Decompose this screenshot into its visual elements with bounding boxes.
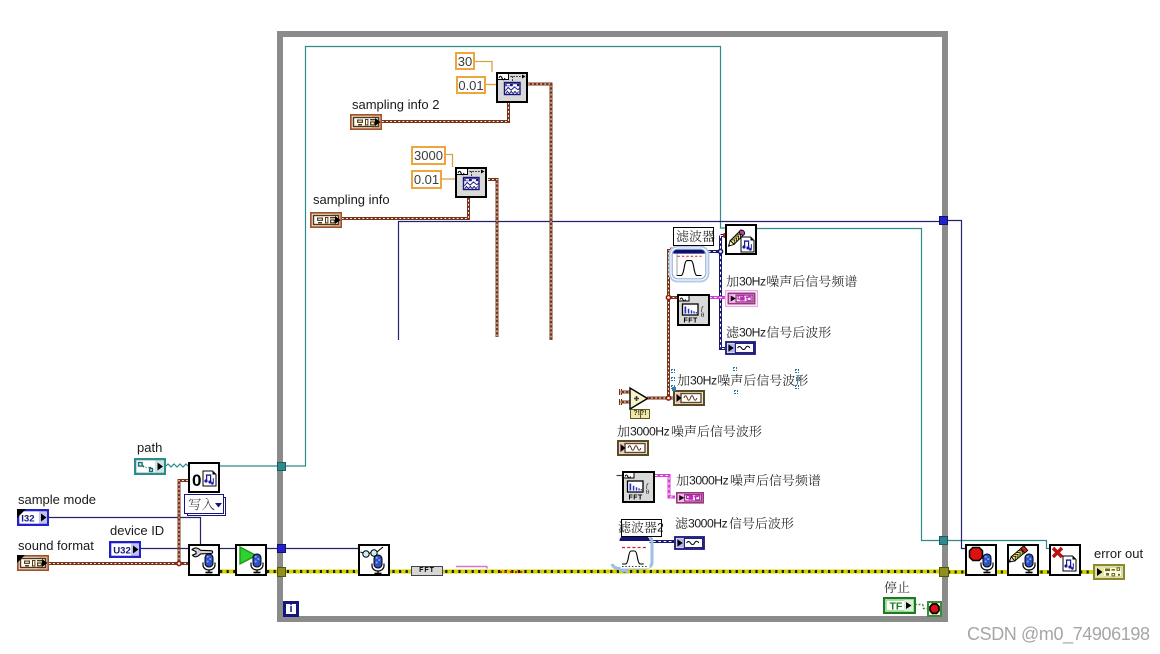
wire: broken input stub at FFT2	[617, 475, 623, 477]
wire: teal refnum from Write Sound File VI to right tunnel and Sound File Close	[757, 229, 1049, 549]
加3000Hz噪声后信号波形 indicator (waveform graph terminal)	[617, 440, 649, 456]
stop boolean TF terminal	[883, 597, 916, 614]
svg-text:30Hz: 30Hz	[739, 326, 766, 339]
label 滤3000Hz信号后波形	[675, 517, 794, 533]
label device ID	[110, 523, 164, 538]
device ID U32 terminal	[109, 541, 141, 558]
wire: configure to start VI (task id)	[220, 548, 235, 550]
label 滤30Hz信号后波形	[726, 326, 832, 342]
wire: orange constant 0.01 to Sine Waveform VI 1	[486, 84, 496, 86]
wire: start VI through blue tunnel to Sound Input Read	[267, 548, 358, 550]
filter express VI 2 (滤波器2)	[610, 533, 654, 575]
tunnel: blue task id (left border)	[277, 544, 286, 553]
label 加3000Hz噪声后信号波形	[617, 425, 762, 441]
breakpoint dot on write VI input	[724, 233, 729, 238]
加30Hz噪声后信号波形 indicator (waveform graph terminal)	[673, 390, 705, 406]
wire: sampling info 2 cluster to Sine VI 1 bottom	[382, 103, 509, 122]
enum constant 写入 (write mode)	[184, 494, 227, 516]
滤30Hz信号后波形 indicator (dynamic data indicator)	[725, 341, 756, 355]
svg-text:3000Hz: 3000Hz	[688, 517, 728, 530]
svg-text:FFT: FFT	[629, 495, 644, 502]
label 停止	[884, 581, 911, 597]
svg-text:θ: θ	[701, 312, 704, 319]
sine waveform VI 1 (Sine Waveform VI)	[496, 72, 528, 103]
wire: orange constant 3000 to Sine Waveform VI 2	[446, 155, 453, 168]
iteration terminal i	[283, 601, 299, 617]
CJK glyph outline definitions (vector text)	[0, 0, 1, 1]
wire: orange constant 0.01 to Sine Waveform VI 2	[442, 178, 455, 180]
wire: error wire from Configure through Start, tunnels, Read across loop to Stop/Clear/Close/error out	[220, 570, 1093, 575]
add function node	[628, 386, 652, 420]
wire: stray red dashes on error wire	[500, 571, 522, 573]
svg-text:3000Hz: 3000Hz	[630, 425, 670, 438]
constant 0.01 (upper)	[456, 76, 486, 94]
tunnel: teal refnum (left border)	[277, 462, 286, 471]
加30Hz噪声后信号频谱 indicator (spectrum indicator)	[725, 290, 758, 307]
constant 3000	[411, 146, 446, 165]
selection handle near indicator	[672, 387, 676, 391]
FFT VI 2 (FFT spectral measurement VI)	[622, 471, 655, 503]
label sound format	[18, 538, 94, 553]
svg-text:TF: TF	[890, 601, 903, 613]
junction: sound format branch	[177, 561, 181, 565]
junction: add output branch	[666, 396, 670, 400]
label box 滤波器2	[621, 519, 662, 537]
label sampling info 2	[352, 97, 439, 112]
error out indicator	[1093, 564, 1125, 580]
while loop frame	[277, 31, 948, 622]
wire: path squiggle from path terminal to Sound File Open	[166, 464, 188, 467]
junction: FFT1 input branch	[666, 295, 670, 299]
sample mode I32 terminal	[17, 509, 49, 526]
breakpoint dot on filter input	[670, 248, 675, 253]
svg-text:U32: U32	[113, 545, 131, 556]
wire: sample mode I32 to Sound Input Configure top	[48, 518, 201, 545]
constant 30	[455, 52, 475, 70]
svg-text:2: 2	[657, 521, 663, 534]
wire: magenta FFT1 spectrum to indicator	[709, 296, 725, 299]
wire: broken navy wire rectangle across loop, out right tunnel down to Sound Input Stop	[399, 221, 966, 549]
label sample mode	[18, 492, 96, 507]
label box 滤波器	[673, 227, 714, 246]
label path	[137, 440, 162, 455]
loop condition terminal (stop sign)	[927, 601, 942, 617]
wire: broken stub inputs of Add function	[620, 389, 630, 405]
svg-text:30Hz: 30Hz	[690, 374, 717, 387]
svg-text:θ: θ	[646, 489, 649, 496]
sound input configure VI	[188, 544, 220, 576]
sampling info terminal (cluster terminal)	[310, 212, 342, 228]
label 加30Hz噪声后信号频谱	[726, 275, 858, 291]
wire: sampling info cluster to Sine VI 2 bottom	[342, 198, 469, 219]
svg-text:FFT: FFT	[684, 318, 699, 325]
FFT label box on error wire	[411, 566, 443, 576]
wire: device ID U32 to Sound Input Configure	[141, 548, 188, 550]
sound file close VI	[1049, 544, 1081, 576]
wire: Sine VI 1 waveform output (dangling end)	[528, 84, 551, 340]
tunnel: olive error (left border)	[277, 567, 286, 577]
svg-text:3000Hz: 3000Hz	[689, 474, 729, 487]
tunnel: teal refnum (right border)	[939, 536, 948, 545]
sound input read VI	[358, 544, 390, 576]
wire: Sine VI 2 waveform output (dangling end)	[488, 180, 497, 338]
sound input start VI	[235, 544, 267, 576]
wire: green boolean dotted from TF to loop condition	[915, 605, 927, 609]
加3000Hz噪声后信号频谱 indicator (spectrum indicator)	[675, 491, 705, 504]
wire: teal sound-file refnum: open VI to left tunnel, up and across loop top, down to Write VI	[220, 47, 725, 467]
label error out	[1094, 546, 1143, 561]
滤3000Hz信号后波形 indicator (dynamic data indicator)	[674, 536, 705, 550]
wire: orange constant 30 to Sine Waveform VI 1	[475, 62, 492, 73]
wire: Add output up to Filter and FFT, right to waveform indicator	[647, 251, 677, 399]
sound format terminal (cluster terminal)	[17, 555, 49, 571]
wire: magenta FFT2 spectrum to indicator	[655, 476, 675, 498]
constant 0.01 (lower)	[411, 170, 442, 189]
FFT VI 1 (FFT spectral measurement VI)	[677, 294, 710, 326]
svg-text:30Hz: 30Hz	[739, 275, 766, 288]
wire: dynamic data from Filter up to Write VI and down to waveform indicator	[708, 236, 725, 349]
label 加30Hz噪声后信号波形 (selected)	[677, 374, 809, 390]
junction: dynamic data branch at write VI	[718, 249, 722, 253]
label sampling info	[313, 192, 390, 207]
label 加3000Hz噪声后信号频谱	[676, 474, 821, 490]
svg-text:I32: I32	[21, 513, 34, 524]
add node ?! warning boxes	[630, 409, 650, 419]
wire: stray magenta fragment	[456, 567, 487, 569]
tunnel: olive error (right border)	[939, 567, 949, 577]
sampling info 2 terminal (cluster terminal)	[350, 114, 382, 130]
filter express VI 1 (滤波器)	[668, 245, 710, 283]
CSDN watermark	[967, 624, 1150, 645]
sound input clear VI	[1007, 544, 1039, 576]
selection handles around 加30Hz噪声后信号波形 label	[671, 369, 675, 373]
write sound file VI	[725, 224, 757, 255]
wire: sound format cluster to Sound File Open and Sound Input Configure	[49, 481, 188, 564]
wire: dynamic data from Filter2 to indicator	[648, 540, 674, 543]
svg-text:0: 0	[192, 471, 201, 490]
path control terminal	[134, 458, 166, 475]
sound file open VI	[188, 462, 220, 493]
sound input stop VI	[965, 544, 997, 576]
sine waveform VI 2 (Sine Waveform VI)	[455, 167, 487, 198]
tunnel: blue broken wire (right border)	[939, 216, 948, 225]
